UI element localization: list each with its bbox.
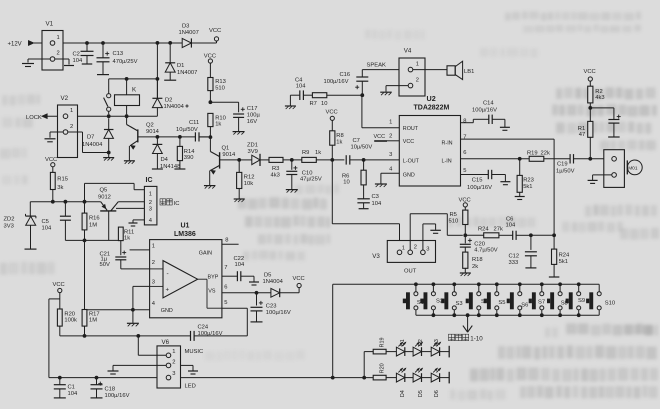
svg-text:R14: R14 [184, 149, 195, 155]
svg-text:C4: C4 [295, 77, 303, 83]
connector V2 [58, 95, 78, 157]
wire base rail lower [65, 239, 120, 243]
svg-text:D7: D7 [87, 135, 94, 141]
wire C19 to mic [590, 158, 611, 160]
svg-text:C12: C12 [509, 254, 520, 260]
svg-text:1k: 1k [315, 150, 321, 156]
resistor R13 [208, 63, 226, 102]
wire LM386 pin8 stub [222, 243, 239, 245]
wire switch bottom rail [416, 313, 599, 317]
svg-text:510: 510 [215, 85, 225, 91]
svg-text:1N4004: 1N4004 [263, 279, 284, 285]
svg-text:104: 104 [506, 223, 516, 229]
svg-text:510: 510 [449, 218, 459, 224]
svg-text:1: 1 [149, 191, 152, 197]
svg-text:10: 10 [343, 179, 349, 185]
svg-text:R9: R9 [302, 150, 309, 156]
switch S5 [484, 284, 506, 315]
svg-text:IC: IC [146, 177, 153, 184]
svg-text:D1: D1 [400, 339, 406, 346]
switch S2 [420, 284, 443, 315]
capacitor C23 [251, 293, 291, 322]
resistor R9 [302, 150, 321, 162]
svg-text:104: 104 [372, 201, 382, 207]
resistor R16 [82, 202, 100, 241]
LED D3 [431, 339, 449, 356]
capacitor C11 [176, 120, 208, 141]
svg-text:R24: R24 [478, 227, 489, 233]
svg-text:D4: D4 [161, 157, 169, 163]
node VCC bracket U2 pin2 [374, 134, 400, 141]
svg-text:R-IN: R-IN [442, 140, 453, 146]
resistor R11 [118, 227, 134, 255]
node LED row2 end bar [448, 372, 450, 384]
svg-text:3: 3 [426, 247, 429, 253]
svg-text:S3: S3 [456, 301, 463, 307]
capacitor C20 [460, 235, 498, 253]
svg-text:R24: R24 [559, 253, 570, 259]
resistor R24 5k1 [552, 235, 571, 276]
svg-text:6: 6 [224, 285, 227, 291]
svg-text:1M: 1M [89, 222, 97, 228]
svg-text:4k3: 4k3 [595, 95, 604, 101]
svg-text:R23: R23 [523, 178, 534, 184]
wire LOCK rail [47, 114, 157, 118]
ground V6 pin2 left [108, 371, 119, 374]
svg-text:L-OUT: L-OUT [403, 158, 420, 164]
svg-text:C7: C7 [353, 138, 360, 144]
svg-text:IC: IC [174, 201, 180, 207]
ground C15 [500, 182, 510, 185]
svg-text:V3: V3 [372, 253, 380, 260]
capacitor C5 [42, 202, 71, 241]
wire relay feed rail [109, 41, 160, 98]
resistor R7 [310, 93, 328, 107]
svg-text:1-10: 1-10 [470, 335, 483, 342]
ground D7 [103, 153, 114, 161]
svg-text:C11: C11 [189, 120, 199, 126]
LED D1 [396, 339, 413, 356]
switch S9 [566, 284, 585, 315]
wire bias rail [30, 200, 144, 204]
resistor R20 (LED row2) [373, 363, 396, 380]
svg-text:2: 2 [416, 77, 419, 83]
svg-text:1µ/50V: 1µ/50V [556, 169, 575, 175]
ground LM386 pin4 [127, 323, 139, 326]
svg-text:LM386: LM386 [174, 231, 196, 238]
svg-text:Q5: Q5 [100, 187, 108, 193]
svg-text:VCC: VCC [45, 157, 57, 163]
node phone arrow [463, 315, 472, 332]
wire V3 pin3 to ground [423, 224, 436, 250]
wire U2 pin8 to C14 [461, 119, 489, 122]
svg-text:V2: V2 [61, 95, 69, 102]
svg-text:2: 2 [389, 134, 392, 140]
ground C17 [233, 132, 245, 135]
capacitor C12 [509, 235, 537, 268]
capacitor C18 [91, 378, 130, 399]
svg-text:-: - [167, 271, 169, 278]
ground V6 pin2 right [188, 371, 198, 374]
svg-text:M01: M01 [628, 166, 638, 172]
wire preamp out to V3 pin1 [332, 160, 399, 250]
svg-text:S7: S7 [538, 300, 545, 306]
wire V1 pin2 right stub [55, 59, 69, 65]
capacitor C7 [346, 138, 399, 165]
wire mic pin2 ground [593, 175, 612, 180]
svg-text:C16: C16 [340, 72, 351, 78]
relay K [115, 79, 140, 115]
wire R3 to R9 [283, 158, 302, 162]
wire LM386 pin5 loop to C24 [194, 308, 247, 336]
transistor Q1 [209, 135, 240, 185]
svg-text:R16: R16 [89, 215, 100, 221]
wire V4 pin2 to ground [386, 86, 408, 92]
svg-text:22k: 22k [541, 150, 550, 156]
zener ZD1 [239, 143, 269, 166]
diode D7 [82, 118, 113, 154]
capacitor C10 [286, 160, 322, 189]
svg-text:3: 3 [172, 371, 175, 377]
wire V1 pin2 to ground [28, 59, 50, 63]
svg-text:8: 8 [463, 119, 466, 125]
ground C10 [286, 190, 298, 193]
capacitor C3 [357, 194, 382, 209]
connector V3 [372, 241, 435, 275]
wire LM386 pin3 net [133, 286, 150, 309]
svg-text:C18: C18 [105, 387, 116, 393]
resistor R1 [578, 121, 593, 158]
wire Zobel rail [327, 94, 363, 96]
ground U2 pin4 [375, 184, 387, 187]
svg-text:2: 2 [149, 200, 152, 206]
svg-text:D2: D2 [165, 97, 172, 103]
capacitor C24 [138, 325, 222, 341]
svg-text:100µ/16V: 100µ/16V [105, 393, 130, 399]
svg-text:1: 1 [172, 349, 175, 355]
ground R12 [234, 199, 245, 202]
ground mic [588, 180, 598, 183]
svg-text:R5: R5 [450, 212, 457, 218]
svg-text:1M: 1M [89, 318, 97, 324]
zener ZD2 [4, 202, 37, 249]
svg-text:R15: R15 [57, 177, 68, 183]
svg-text:ZD2: ZD2 [4, 216, 15, 222]
wire S10 right end [0, 0, 1, 1]
wire IC pin1 feed [85, 183, 145, 201]
svg-text:R13: R13 [215, 79, 226, 85]
svg-text:R12: R12 [244, 174, 255, 180]
switch S10 [586, 284, 615, 315]
wire R5 node to R24 [465, 234, 483, 236]
svg-text:S6: S6 [521, 302, 528, 308]
svg-text:R3: R3 [272, 166, 279, 172]
resistor R2 [588, 81, 605, 121]
resistor R23 [517, 159, 534, 196]
wire +12V rail [34, 41, 217, 43]
resistor R6 [342, 160, 366, 199]
capacitor C13 [97, 41, 138, 75]
svg-text:D2: D2 [418, 339, 424, 346]
ground R18 [460, 273, 471, 276]
svg-text:VCC: VCC [374, 134, 386, 140]
svg-text:C15: C15 [472, 178, 483, 184]
wire IC pin3 stub [116, 207, 144, 209]
label music IC [160, 199, 179, 207]
node VCC after D5 [293, 276, 305, 287]
diode D3 [179, 23, 199, 47]
op-amp U1 LM386 [150, 223, 229, 318]
node +12V input arrow [8, 40, 35, 47]
svg-text:MUSIC: MUSIC [185, 349, 204, 355]
svg-text:2: 2 [414, 244, 417, 250]
svg-text:S10: S10 [605, 301, 615, 307]
svg-text:C17: C17 [247, 106, 258, 112]
svg-text:100k: 100k [64, 318, 77, 324]
wire V3 pin2 to R5 node [410, 214, 463, 250]
svg-text:OUT: OUT [404, 268, 417, 274]
svg-text:VCC: VCC [53, 282, 65, 288]
svg-text:3V9: 3V9 [248, 149, 258, 155]
svg-text:TDA2822M: TDA2822M [414, 104, 450, 111]
svg-text:10k: 10k [244, 181, 253, 187]
svg-text:VCC: VCC [584, 69, 596, 75]
capacitor C15 [467, 170, 505, 191]
switch S7 [529, 284, 545, 315]
svg-text:3: 3 [389, 152, 392, 158]
capacitor C4 [290, 77, 312, 105]
node VCC above R2 [584, 69, 596, 81]
svg-text:C6: C6 [506, 216, 513, 222]
svg-text:D5: D5 [418, 390, 424, 397]
svg-text:100µ/16V: 100µ/16V [198, 331, 223, 337]
ground V2 [45, 139, 56, 142]
diode D1 [164, 41, 197, 80]
LED D5 [413, 368, 431, 397]
svg-text:2k: 2k [472, 264, 478, 270]
wire V6 pin1 feed [138, 336, 166, 355]
node VCC above R15 [45, 157, 57, 167]
svg-text:VS: VS [208, 289, 216, 295]
svg-text:LED: LED [185, 384, 196, 390]
svg-text:S9: S9 [578, 298, 585, 304]
wire V4 pin1 to LB1 [413, 69, 447, 71]
capacitor C19 [556, 154, 575, 175]
wire SPEAK net [362, 62, 408, 69]
capacitor C17 [233, 102, 260, 131]
capacitor C2 [73, 41, 94, 64]
svg-text:3V3: 3V3 [4, 223, 14, 229]
svg-text:1: 1 [57, 35, 60, 41]
svg-text:V6: V6 [162, 339, 170, 346]
ground Q1 emitter [204, 186, 216, 189]
diode D5 [263, 272, 300, 297]
svg-text:C23: C23 [266, 304, 277, 310]
svg-text:R19: R19 [527, 150, 538, 156]
svg-text:U1: U1 [181, 223, 190, 230]
svg-text:C22: C22 [234, 256, 245, 262]
wire IC pin4 to ground [133, 220, 144, 223]
svg-text:Q1: Q1 [222, 146, 230, 152]
wire LM386 pin1 stub [130, 249, 150, 251]
node VCC (D3 cathode) [209, 28, 221, 41]
svg-text:D5: D5 [264, 272, 271, 278]
ground V4 [380, 92, 392, 95]
microphone M01 [627, 160, 642, 175]
switch S3 [441, 284, 462, 315]
svg-text:C2: C2 [73, 52, 80, 58]
resistor R19 [527, 150, 550, 161]
svg-text:3: 3 [152, 280, 155, 286]
svg-text:VCC: VCC [403, 139, 414, 145]
svg-text:1: 1 [152, 244, 155, 250]
svg-text:104: 104 [296, 84, 306, 90]
svg-text:S5: S5 [498, 300, 505, 306]
svg-text:333: 333 [509, 260, 519, 266]
svg-text:R6: R6 [342, 173, 349, 179]
LED D6 [431, 368, 449, 397]
svg-text:VCC: VCC [293, 276, 305, 282]
resistor R10 [208, 113, 226, 137]
svg-text:R10: R10 [215, 115, 226, 121]
ground R24 5k1 [549, 276, 560, 278]
svg-text:2: 2 [70, 124, 73, 130]
ground IC pin4 [129, 223, 138, 226]
switch S6 [507, 284, 529, 315]
connector V4 [399, 47, 425, 96]
capacitor C1 [54, 378, 78, 398]
wire Q2 base rail [156, 135, 211, 139]
svg-text:D3: D3 [182, 23, 189, 29]
wire V6 pin2 ground right hook [181, 365, 194, 370]
svg-text:8: 8 [225, 238, 228, 244]
svg-text:27k: 27k [494, 227, 503, 233]
svg-text:104: 104 [73, 58, 83, 64]
wire V2 pin2 to ground [50, 132, 63, 138]
wire U2 pin6 L-IN net [461, 157, 593, 161]
svg-text:VCC: VCC [209, 28, 221, 34]
svg-text:2: 2 [172, 360, 175, 366]
svg-text:V4: V4 [404, 47, 412, 54]
svg-text:GAIN: GAIN [199, 250, 212, 256]
resistor R15 [50, 167, 68, 202]
svg-text:1: 1 [416, 61, 419, 67]
switch S8 [547, 284, 568, 315]
svg-text:U2: U2 [427, 94, 436, 103]
svg-text:VCC: VCC [326, 110, 338, 116]
switch S4 [466, 284, 489, 315]
svg-text:GND: GND [403, 172, 415, 178]
resistor R3 [269, 157, 283, 178]
wire switch top rail [333, 282, 600, 286]
wire U2 pin7 R-IN net [461, 139, 555, 235]
ground V3 pin3 [430, 230, 441, 233]
resistor R18 [463, 252, 483, 273]
svg-text:2: 2 [152, 260, 155, 266]
op-amp IC (music IC) [144, 177, 157, 225]
wire LM386 pin4 net [85, 308, 150, 323]
svg-text:100µ/16V: 100µ/16V [472, 108, 497, 114]
ground C4 [285, 106, 296, 109]
resistor R5 [449, 207, 468, 237]
svg-text:2: 2 [57, 51, 60, 57]
svg-text:1N4004: 1N4004 [82, 142, 103, 148]
resistor R8 [330, 120, 344, 159]
svg-text:4k3: 4k3 [271, 173, 280, 179]
wire switch rail left riser [332, 284, 334, 377]
node VCC above R13 [204, 53, 216, 63]
wire U2 pin4 to ground [381, 173, 399, 183]
speaker LB1 [447, 61, 474, 79]
svg-text:1N4004: 1N4004 [164, 104, 185, 110]
svg-text:D4: D4 [400, 390, 406, 397]
LED D4 [396, 368, 413, 397]
svg-text:D3: D3 [434, 339, 440, 346]
svg-text:100µ/16V: 100µ/16V [467, 185, 492, 191]
resistor R14 [174, 137, 195, 169]
node VCC above R5 [459, 197, 471, 207]
op-amp U2 TDA2822M [389, 94, 466, 186]
connector mic socket [604, 150, 625, 188]
resistor R20 100k [57, 309, 77, 336]
svg-text:C24: C24 [198, 325, 209, 331]
svg-text:47: 47 [579, 132, 585, 138]
resistor R19 (LED row1) [373, 337, 396, 353]
switch K contact [104, 79, 111, 114]
svg-text:5k1: 5k1 [523, 184, 532, 190]
svg-text:1k: 1k [336, 139, 342, 145]
capacitor C22 [222, 256, 254, 282]
resistor R24 27k [478, 227, 503, 238]
resistor R17 1M [82, 240, 100, 336]
capacitor C16 [324, 70, 369, 98]
wire V6 pin2 to ground left [113, 365, 166, 370]
capacitor C6 [499, 216, 533, 240]
svg-text:50V: 50V [100, 262, 110, 268]
svg-text:390: 390 [184, 155, 194, 161]
svg-text:+: + [166, 288, 170, 294]
svg-text:R8: R8 [336, 133, 343, 139]
svg-text:R20: R20 [380, 363, 386, 373]
svg-text:L-IN: L-IN [442, 158, 452, 164]
svg-text:C3: C3 [372, 194, 379, 200]
svg-text:R18: R18 [472, 257, 483, 263]
svg-text:1k: 1k [215, 121, 221, 127]
switch S1 [403, 284, 424, 315]
svg-text:10µ/50V: 10µ/50V [351, 145, 373, 151]
svg-text:C5: C5 [42, 219, 49, 225]
svg-text:47µ/25V: 47µ/25V [300, 177, 322, 183]
svg-text:10µ/50V: 10µ/50V [176, 127, 198, 133]
ground V1 right [64, 65, 74, 67]
wire U2 pin5 to C15 [461, 174, 489, 176]
svg-text:1k: 1k [124, 236, 130, 242]
svg-text:1N4007: 1N4007 [179, 30, 199, 36]
wire U2 pin1 ROUT riser [362, 95, 399, 128]
wire LED feed line [49, 376, 373, 380]
svg-text:VCC: VCC [204, 53, 216, 59]
svg-text:5k1: 5k1 [559, 259, 568, 265]
svg-text:3k: 3k [57, 185, 63, 191]
ground Q2 emitter [124, 161, 135, 164]
svg-text:C1: C1 [68, 385, 75, 391]
connector V1 [42, 21, 63, 71]
svg-text:100µ: 100µ [247, 112, 261, 118]
ground R23 [515, 197, 525, 200]
svg-text:104: 104 [68, 391, 78, 397]
node LOCK output arrow [26, 114, 47, 121]
svg-text:VCC: VCC [459, 197, 471, 203]
